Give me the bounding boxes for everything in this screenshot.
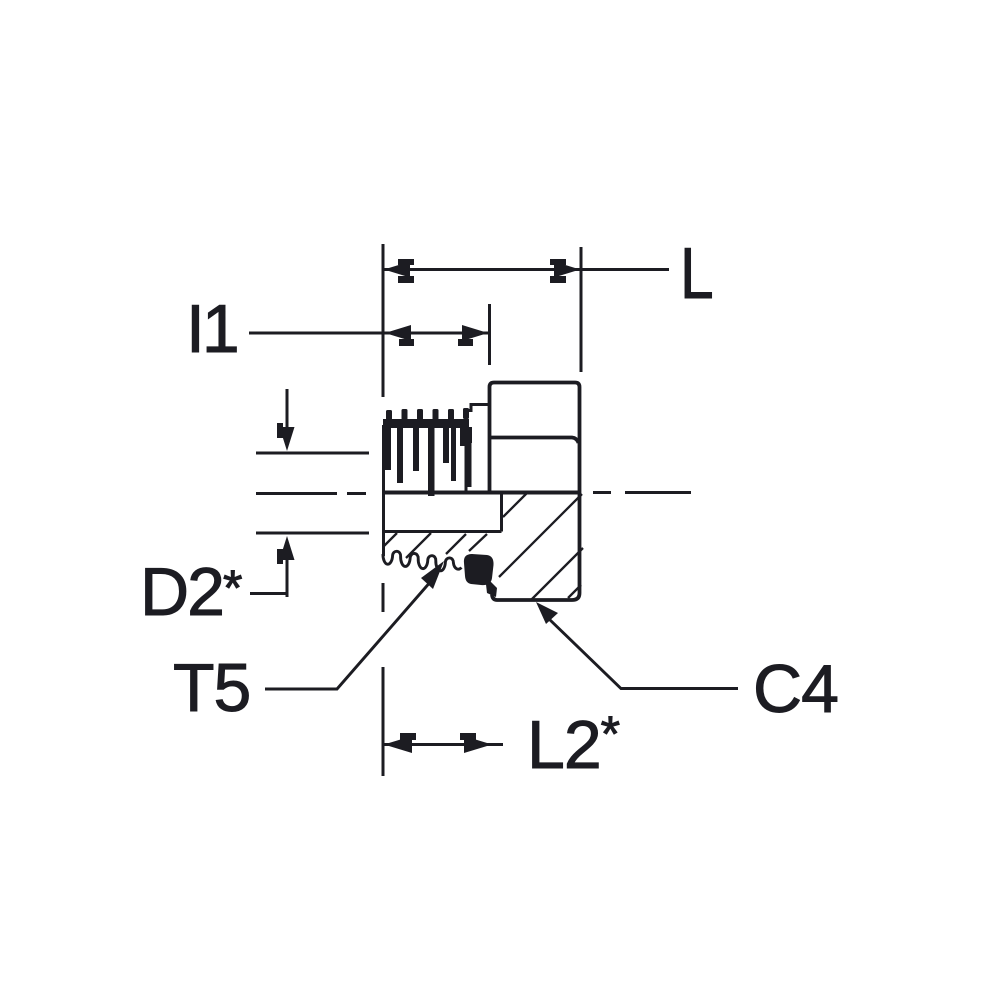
extension line left lower dashes	[382, 583, 385, 776]
arrow I1 left	[385, 325, 414, 346]
thread left edge	[382, 425, 385, 492]
D2 leader	[250, 592, 289, 595]
hex head outline	[490, 383, 580, 601]
collar	[466, 405, 489, 493]
T5 arrowhead	[421, 561, 444, 589]
left hatched band edge	[382, 531, 385, 556]
svg-text:I1: I1	[186, 291, 237, 367]
svg-text:T5: T5	[173, 650, 250, 726]
dimension line L2	[383, 743, 503, 746]
svg-text:C4: C4	[753, 651, 838, 727]
svg-text:L2*: L2*	[527, 706, 620, 783]
arrow L2 left	[384, 733, 416, 753]
hex hatch	[499, 492, 583, 600]
bore band outline	[383, 492, 502, 532]
arrow L2 right	[460, 733, 492, 753]
thread flank bars	[385, 427, 472, 496]
extension line right of I1 (x=489)	[488, 304, 491, 365]
arrow L right	[550, 259, 580, 283]
svg-text:L: L	[680, 234, 714, 314]
C4 leader	[548, 618, 738, 689]
arrow I1 right	[458, 325, 488, 346]
C4 arrowhead	[536, 602, 558, 624]
extension line left (x=383)	[382, 244, 385, 397]
D2 upper arrow (down)	[286, 389, 289, 430]
dimension line L	[383, 268, 669, 271]
T5 leader	[265, 580, 432, 689]
D2 lower arrow (up)	[286, 555, 289, 597]
D2 lower extension line	[256, 532, 369, 535]
arrow L left	[384, 259, 414, 283]
hex facet line	[490, 438, 579, 444]
centerline left	[256, 492, 366, 495]
D2 upper extension line	[256, 452, 369, 455]
section boundary at centerline	[383, 491, 580, 495]
thread section scallops	[383, 551, 461, 571]
centerline right	[593, 491, 691, 494]
svg-text:D2*: D2*	[140, 554, 242, 630]
seal blob	[464, 554, 497, 597]
dimension line I1	[249, 332, 489, 335]
extension line right of L (x=581)	[580, 247, 583, 372]
left band hatch	[384, 533, 487, 558]
thread crest band	[383, 419, 469, 428]
thread crest tabs	[386, 408, 469, 420]
